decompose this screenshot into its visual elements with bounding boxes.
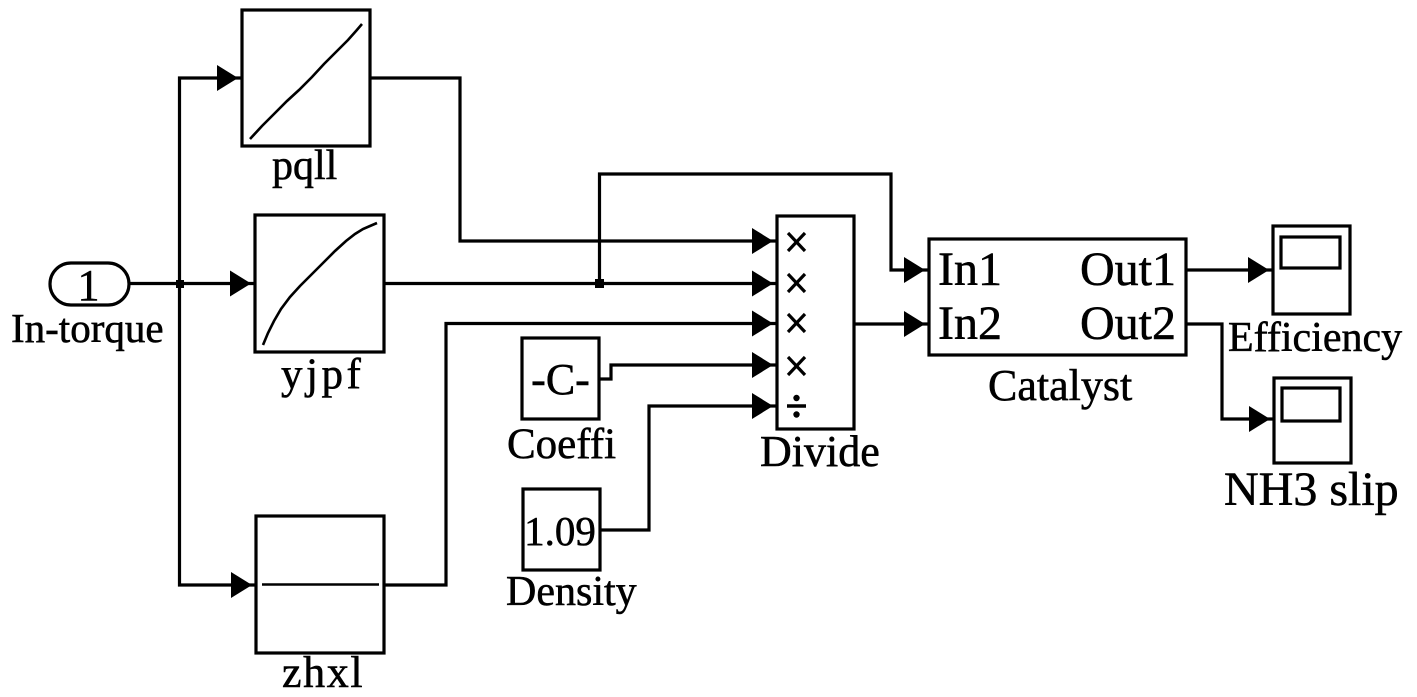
svg-text:Coeffi: Coeffi <box>507 421 616 468</box>
svg-text:Out2: Out2 <box>1080 297 1176 350</box>
arrowhead Divide input 3 <box>752 311 773 337</box>
svg-text:Density: Density <box>506 569 637 615</box>
svg-text:In2: In2 <box>938 297 1002 350</box>
multiply symbol input 1 <box>788 233 805 251</box>
product block Divide <box>777 216 854 429</box>
lookup table pqll <box>242 10 370 146</box>
wire pqll to Divide input 1 <box>370 78 777 241</box>
arrowhead Divide input 1 <box>752 228 773 254</box>
wire zhxl to Divide input 3 <box>384 324 777 586</box>
scope NH3 slip <box>1274 378 1351 463</box>
arrowhead into zhxl <box>231 572 252 598</box>
svg-text:-C-: -C- <box>531 355 590 404</box>
arrowhead into yjpf <box>230 271 251 297</box>
svg-text:1: 1 <box>78 261 100 310</box>
node junction at input trunk <box>176 280 184 288</box>
node junction on yjpf output <box>595 279 604 288</box>
svg-text:Efficiency: Efficiency <box>1228 315 1402 361</box>
wire trunk down to zhxl <box>180 284 257 586</box>
svg-text:Catalyst: Catalyst <box>988 361 1132 410</box>
arrowhead Catalyst In1 <box>904 257 925 283</box>
svg-text:NH3 slip: NH3 slip <box>1224 463 1399 516</box>
wire Divide output to Catalyst In2 <box>854 322 929 325</box>
constant Coeffi <box>522 338 599 419</box>
wire Out2 to NH3 slip scope <box>1186 324 1274 419</box>
scope Efficiency <box>1273 226 1350 314</box>
svg-text:zhxl: zhxl <box>282 648 364 697</box>
wire junction up over to Catalyst In1 <box>600 174 930 284</box>
subsystem Catalyst <box>929 239 1186 355</box>
wire input to yjpf <box>129 282 255 285</box>
wire trunk up to pqll <box>180 78 243 284</box>
arrowhead Catalyst In2 <box>904 311 925 337</box>
svg-text:In1: In1 <box>938 243 1002 296</box>
svg-text:1.09: 1.09 <box>524 508 596 554</box>
wire Density to Divide input 5 <box>600 406 777 530</box>
svg-text:pqll: pqll <box>272 143 337 189</box>
arrowhead into pqll <box>217 65 238 91</box>
svg-text:In-torque: In-torque <box>11 305 164 351</box>
constant Density 1.09 <box>523 489 600 570</box>
divide symbol input 5 <box>787 395 806 418</box>
arrowhead into Efficiency scope <box>1248 257 1269 283</box>
wire yjpf to Divide input 2 <box>384 282 777 285</box>
arrowhead Divide input 4 <box>752 352 773 378</box>
wire Out1 to Efficiency scope <box>1186 268 1273 271</box>
svg-text:Out1: Out1 <box>1080 243 1176 296</box>
multiply symbol input 4 <box>788 357 805 375</box>
input port 1 (In-torque oval) <box>50 261 129 310</box>
arrowhead Divide input 2 <box>752 271 773 297</box>
arrowhead Divide input 5 <box>752 393 773 419</box>
multiply symbol input 2 <box>788 274 805 292</box>
arrowhead into NH3 slip scope <box>1249 406 1270 432</box>
lookup table zhxl <box>256 516 384 653</box>
svg-text:yjpf: yjpf <box>281 351 364 398</box>
svg-text:Divide: Divide <box>760 427 880 476</box>
wire Coeffi to Divide input 4 <box>599 365 777 379</box>
multiply symbol input 3 <box>788 314 805 332</box>
lookup table yjpf <box>255 215 384 352</box>
